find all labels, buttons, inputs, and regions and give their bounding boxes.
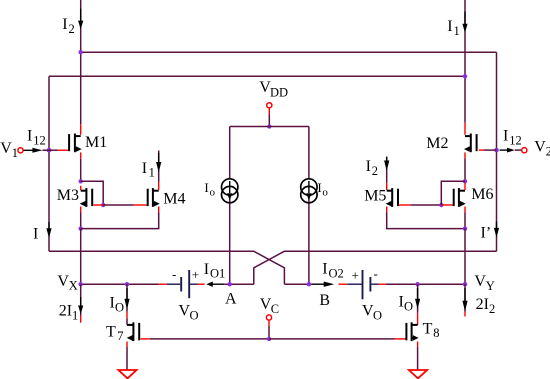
svg-text:+: + — [352, 268, 359, 283]
wire V1 junction to M1 gate — [43, 149, 58, 151]
transistor T7 — [127, 322, 140, 341]
node dot IO tap right — [415, 282, 419, 286]
wire VX rail — [81, 283, 159, 285]
pin red M3 gate — [93, 204, 103, 206]
pin red M3 source — [80, 207, 82, 213]
pin red M4 source — [158, 207, 160, 213]
pin red T7 gate — [141, 338, 150, 340]
svg-text:V: V — [474, 273, 486, 290]
pin red T7 drain — [126, 312, 128, 319]
wire left current source column — [229, 127, 231, 285]
pin red 2I2 stub end — [464, 312, 466, 317]
pin red M6 source — [464, 207, 466, 213]
wire M5 source down and right — [387, 213, 465, 229]
arrow I2 inner — [386, 157, 388, 162]
wire VY rail — [386, 283, 465, 285]
wire I2 drain column top — [80, 0, 82, 124]
pin red M1 drain — [80, 124, 82, 135]
arrow I12 right — [500, 149, 509, 151]
wire gate rail M5-M6 — [411, 204, 442, 206]
svg-text:M6: M6 — [471, 186, 493, 203]
transistor T8 — [406, 322, 418, 341]
svg-text:I: I — [317, 180, 321, 195]
pin red M4 gate — [134, 204, 147, 206]
wire T7 source to ground — [126, 347, 128, 370]
svg-text:12: 12 — [509, 134, 522, 148]
node dot M2 gate junction — [494, 148, 499, 153]
wire M6 source rail down to VY — [464, 229, 466, 285]
svg-text:8: 8 — [433, 326, 439, 340]
current source Io right — [301, 179, 317, 203]
wire M6 diode connection — [441, 181, 465, 205]
svg-text:I: I — [62, 16, 67, 33]
wire VC stub — [268, 326, 270, 339]
pin red 2I1 stub end — [80, 316, 82, 323]
svg-text:T: T — [423, 320, 433, 337]
wire top rail 2 (M1 gate column to M2 drain) — [49, 75, 465, 77]
wire M1 source to diode tap — [80, 159, 82, 182]
svg-text:I: I — [204, 180, 208, 195]
svg-text:o: o — [322, 187, 328, 199]
pin red VC — [268, 320, 270, 326]
ground left — [118, 370, 136, 378]
svg-text:o: o — [210, 187, 216, 199]
svg-text:T: T — [106, 323, 116, 340]
svg-text:1: 1 — [12, 146, 18, 160]
pin red M4 drain — [158, 182, 160, 190]
pin red M1 source — [80, 152, 82, 158]
arrow IO2 — [312, 283, 326, 285]
arrow I (left outer) — [48, 222, 50, 230]
battery VO right — [347, 270, 379, 299]
wire top rail 1 (M1 drain to M2 gate column) — [81, 51, 497, 53]
wire right outer column — [496, 52, 498, 251]
pin red arrow to battery right — [339, 283, 348, 285]
svg-text:I’: I’ — [481, 225, 492, 242]
svg-text:2: 2 — [489, 302, 495, 316]
wire M4 source down and left to M3 source rail — [81, 213, 159, 229]
pin red M1 gate — [58, 149, 69, 151]
pin red M2 source — [464, 152, 466, 158]
svg-text:O2: O2 — [329, 266, 344, 280]
transistor M3 — [80, 188, 93, 207]
battery VO left — [167, 270, 198, 298]
terminal V2 — [522, 148, 527, 153]
node dot M1 source / M3 drain — [79, 179, 83, 183]
terminal VC — [266, 315, 271, 320]
wire T8 drain — [417, 324, 419, 325]
svg-text:I: I — [322, 261, 327, 278]
pin red T8 drain — [417, 313, 419, 324]
pin red M2 drain — [464, 123, 466, 135]
transistor M2 — [464, 134, 477, 153]
arrow 2I2 — [464, 288, 466, 301]
svg-text:O: O — [115, 301, 124, 315]
svg-text:I: I — [204, 261, 209, 278]
svg-text:V: V — [534, 139, 546, 156]
svg-text:-: - — [374, 266, 378, 281]
node dot top-left — [79, 50, 83, 54]
wire M3 source down — [80, 213, 82, 229]
pin red T8 gate — [395, 338, 406, 340]
svg-text:I: I — [27, 128, 32, 145]
pin red VX battery lead — [159, 283, 167, 285]
node dot M2 source / M6 drain — [463, 179, 467, 183]
svg-text:M4: M4 — [163, 191, 185, 208]
svg-text:2: 2 — [372, 164, 378, 178]
pin red T8 source — [417, 342, 419, 348]
pin red M5 drain — [386, 183, 388, 190]
svg-text:V: V — [0, 140, 12, 157]
svg-text:Y: Y — [486, 279, 495, 293]
arrow I1 — [464, 12, 466, 26]
svg-text:M3: M3 — [57, 187, 79, 204]
wire M3 source rail down to VX — [80, 229, 82, 285]
wire VDD stub — [268, 115, 270, 127]
wire M2 gate to outer column — [484, 149, 497, 151]
wire T7 drain — [126, 318, 128, 325]
node dot V1 junction — [47, 148, 52, 153]
pin red M5 source — [386, 207, 388, 213]
svg-text:12: 12 — [33, 134, 46, 148]
wire VDD rail — [230, 126, 309, 128]
wire 2I1 stub below VX — [80, 284, 82, 315]
svg-text:O1: O1 — [210, 267, 225, 281]
node dot B — [307, 282, 311, 286]
node dot M6 gate junction — [439, 203, 443, 207]
wire right current source column — [308, 127, 310, 285]
pin red M3 drain — [80, 186, 82, 190]
svg-text:M2: M2 — [426, 135, 448, 152]
wire gate rail M3-M4 — [103, 204, 133, 206]
svg-text:V: V — [57, 273, 69, 290]
pin red T7 source — [126, 342, 128, 348]
node dot VDD — [267, 124, 271, 128]
arrow 2I1 — [80, 297, 82, 308]
wire cross-couple right rail to node A — [254, 251, 497, 284]
svg-text:7: 7 — [117, 329, 123, 343]
node dot VX — [79, 282, 83, 286]
wire cross-couple left rail to node B — [49, 251, 284, 284]
wire M2 source to diode tap — [464, 159, 466, 182]
pin red M5 gate — [398, 204, 410, 206]
svg-text:I: I — [447, 18, 452, 35]
wire T8 source to ground — [417, 347, 419, 370]
svg-text:2I: 2I — [59, 303, 72, 320]
wire IO right column — [417, 284, 419, 313]
terminal VDD — [267, 103, 272, 108]
pin red M6 gate — [441, 204, 453, 206]
svg-text:DD: DD — [270, 85, 288, 99]
arrow IO right — [417, 288, 419, 299]
terminal V1 — [18, 148, 23, 153]
wire left outer column — [48, 76, 50, 251]
arrow I1 inner — [158, 153, 160, 163]
pin red battery to arrow — [198, 283, 205, 285]
svg-text:I: I — [503, 128, 508, 145]
wire gate rail T7 to VC — [150, 338, 269, 340]
pin red M2 gate — [479, 149, 484, 151]
arrow IO left — [126, 288, 128, 299]
wire IO left column — [126, 284, 128, 311]
node dot M3 source rail — [79, 226, 83, 230]
svg-text:1: 1 — [149, 165, 155, 179]
svg-text:C: C — [271, 302, 279, 316]
svg-text:2I: 2I — [476, 296, 489, 313]
svg-text:2: 2 — [546, 145, 550, 159]
svg-text:I: I — [33, 226, 38, 243]
arrow IO1 — [211, 283, 224, 285]
svg-text:O: O — [404, 300, 413, 314]
wire node A rail — [224, 283, 254, 285]
svg-text:1: 1 — [72, 309, 78, 323]
arrow I2 — [80, 9, 82, 22]
svg-text:B: B — [319, 292, 330, 309]
node dot top-right — [463, 74, 467, 78]
transistor M1 — [69, 134, 82, 153]
pin red M6 drain — [464, 183, 466, 190]
node dot M6 source rail — [463, 226, 467, 230]
pin red battery to VY rail — [379, 283, 386, 285]
wire node B rail — [284, 283, 311, 285]
wire 2I2 stub below VY — [464, 284, 466, 311]
svg-text:I: I — [142, 160, 147, 177]
svg-text:O: O — [190, 309, 199, 323]
arrow I' (right outer) — [496, 222, 498, 230]
svg-text:2: 2 — [69, 22, 75, 36]
node dot VY — [463, 282, 467, 286]
wire gate rail VC to T8 — [269, 338, 395, 340]
node dot A — [228, 282, 232, 286]
svg-text:O: O — [373, 309, 382, 323]
transistor M6 — [454, 188, 466, 207]
pin red VDD — [268, 108, 270, 114]
svg-text:1: 1 — [454, 24, 460, 38]
svg-text:+: + — [192, 267, 199, 282]
wire M6 source down — [464, 213, 466, 229]
node dot IO tap left — [125, 282, 129, 286]
transistor M4 — [148, 188, 160, 207]
node dot M3 gate junction — [101, 203, 105, 207]
arrow I12 left — [24, 149, 34, 151]
wire M3 diode connection — [81, 181, 104, 205]
ground right — [409, 370, 427, 378]
svg-text:I: I — [366, 158, 371, 175]
wire I1 stub above M4 — [158, 151, 160, 182]
svg-text:M5: M5 — [364, 188, 386, 205]
svg-text:X: X — [69, 279, 78, 293]
node dot VC — [267, 337, 271, 341]
svg-text:-: - — [172, 267, 176, 282]
svg-text:A: A — [225, 291, 237, 308]
transistor M5 — [386, 188, 398, 207]
svg-text:M1: M1 — [85, 134, 107, 151]
wire I2 stub above M5 — [386, 157, 388, 183]
current source Io left — [222, 179, 238, 203]
wire I1 drain column top — [464, 0, 466, 123]
